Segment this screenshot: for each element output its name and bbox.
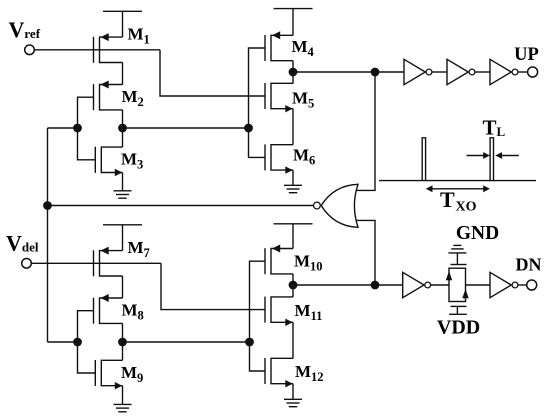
input terminal Vdel xyxy=(22,259,32,269)
arrow TL left xyxy=(467,155,487,157)
supply bar VDD xyxy=(449,313,467,315)
wire U1 to U2 xyxy=(432,71,447,73)
wire M1 drain to M2 source xyxy=(122,63,124,85)
wire node D to M5 drain xyxy=(292,72,294,84)
svg-text:M9: M9 xyxy=(121,363,143,385)
wire node B2 to node C2 xyxy=(123,341,250,343)
svg-text:T: T xyxy=(440,187,455,212)
transistor M7 xyxy=(93,250,95,276)
node A xyxy=(73,124,82,133)
wire M4 drain to node D xyxy=(292,61,294,72)
svg-text:M5: M5 xyxy=(292,89,314,111)
wire M9 gate to node A2 xyxy=(78,342,96,373)
wire U5 to transmission gate xyxy=(431,284,450,286)
transistor M5 xyxy=(264,83,266,109)
inverter U3 xyxy=(490,59,511,84)
node D2 xyxy=(289,281,298,290)
svg-text:M6: M6 xyxy=(293,146,315,168)
input terminal Vref xyxy=(25,45,35,55)
inverter U1 xyxy=(404,59,425,84)
supply bar above M10 xyxy=(274,223,313,225)
output terminal UP xyxy=(528,67,538,77)
node A2 xyxy=(73,338,82,347)
wire node DN to NOR input B xyxy=(354,220,375,285)
node UP xyxy=(371,68,380,77)
wire M3 drain to node B xyxy=(122,128,124,147)
wire node UP to NOR input A xyxy=(354,72,375,190)
nor gate U4 xyxy=(321,184,358,227)
node C2 xyxy=(245,338,254,347)
svg-text:T: T xyxy=(483,116,497,140)
supply bar above M1 xyxy=(103,10,142,12)
svg-text:XO: XO xyxy=(456,200,477,215)
node NOR output on rail xyxy=(43,201,52,210)
svg-text:L: L xyxy=(497,124,506,139)
left rail wire xyxy=(47,128,49,342)
svg-text:M2: M2 xyxy=(122,87,144,109)
transistor M8 xyxy=(93,298,95,324)
wire node UP to inverter U1 xyxy=(375,71,404,73)
waveform baseline xyxy=(379,180,536,182)
supply bar above M7 xyxy=(103,224,142,226)
svg-text:M1: M1 xyxy=(128,25,150,47)
node C xyxy=(244,124,253,133)
waveform pulse 1 xyxy=(422,138,425,181)
supply bar above M4 xyxy=(274,8,313,10)
transistor M3 xyxy=(94,147,96,173)
wire node A2 to left rail xyxy=(48,341,78,343)
wire M11 source to M12 drain xyxy=(292,322,294,358)
wire transmission gate to U6 xyxy=(466,284,491,286)
node B xyxy=(118,124,127,133)
wire M9 drain to node B2 xyxy=(122,342,124,360)
arrow TL right xyxy=(499,155,519,157)
wire node D2 to M11 drain xyxy=(292,285,294,297)
svg-text:Vref: Vref xyxy=(9,17,41,42)
wire node D to node UP xyxy=(293,71,375,73)
svg-text:M7: M7 xyxy=(128,238,150,260)
wire M8 gate to node A2 xyxy=(78,311,94,342)
wire U2 to U3 xyxy=(475,71,490,73)
transistor M11 xyxy=(264,297,266,323)
wire M8 drain to node B2 xyxy=(122,323,124,342)
inverter U2 xyxy=(447,59,468,84)
svg-text:Vdel: Vdel xyxy=(6,231,39,256)
transistor M4 xyxy=(264,35,266,61)
wire U3 to UP terminal xyxy=(518,71,528,73)
transistor M6 xyxy=(264,144,266,170)
transistor M9 xyxy=(94,360,96,386)
svg-text:GND: GND xyxy=(456,223,499,244)
inverter U6 xyxy=(490,272,511,297)
node B2 xyxy=(118,338,127,347)
svg-text:M8: M8 xyxy=(122,301,144,323)
wire M2 drain to node B xyxy=(122,110,124,128)
transistor M2 xyxy=(93,84,95,110)
wire node C to M4 gate xyxy=(249,48,266,128)
svg-text:M12: M12 xyxy=(295,362,324,384)
gate plate to GND xyxy=(451,264,467,266)
wire node DN to inverter U5 xyxy=(375,284,403,286)
transistor M10 xyxy=(264,248,266,274)
wire U6 to DN terminal xyxy=(518,284,527,286)
wire node D2 to node DN xyxy=(293,284,375,286)
wire Vref jog to M5 gate xyxy=(160,50,265,96)
node DN xyxy=(371,281,380,290)
transistor M1 xyxy=(93,37,95,63)
wire M5 source to M6 drain xyxy=(292,109,294,145)
wire node B to node C xyxy=(123,127,249,129)
wire node C to M6 gate xyxy=(249,128,266,157)
inverter U5 xyxy=(403,272,424,297)
svg-text:UP: UP xyxy=(514,45,539,65)
transmission gate pass element xyxy=(449,268,466,301)
wire node C2 to M12 gate xyxy=(250,342,266,371)
svg-text:M10: M10 xyxy=(294,252,323,274)
svg-text:M3: M3 xyxy=(121,150,143,172)
ground below M9 xyxy=(122,386,124,405)
svg-text:VDD: VDD xyxy=(437,317,480,339)
wire node C2 to M10 gate xyxy=(250,261,266,342)
wire Vref to M1 gate xyxy=(34,49,160,51)
ground symbol GND (flipped) xyxy=(448,252,466,254)
ground below M12 xyxy=(292,384,294,400)
wire M3 gate to node A xyxy=(78,128,96,160)
svg-text:DN: DN xyxy=(516,255,542,275)
ground below M6 xyxy=(292,170,294,185)
waveform pulse 2 xyxy=(490,138,493,181)
transistor M12 xyxy=(264,358,266,384)
node D xyxy=(289,68,298,77)
output terminal DN xyxy=(527,280,537,290)
wire Vdel jog to M11 gate xyxy=(161,263,265,309)
wire M2 gate to node A xyxy=(78,97,94,128)
gate plate to VDD xyxy=(451,305,467,307)
wire NOR output to left rail xyxy=(48,205,314,207)
arrow TXO xyxy=(428,188,488,190)
ground below M3 xyxy=(122,173,124,191)
wire Vdel to M7 gate xyxy=(31,262,161,264)
wire M10 drain to node D2 xyxy=(292,274,294,285)
wire M7 drain to M8 source xyxy=(122,276,124,298)
svg-text:M11: M11 xyxy=(295,301,323,323)
svg-text:M4: M4 xyxy=(292,37,315,59)
wire node A to left rail xyxy=(48,127,78,129)
